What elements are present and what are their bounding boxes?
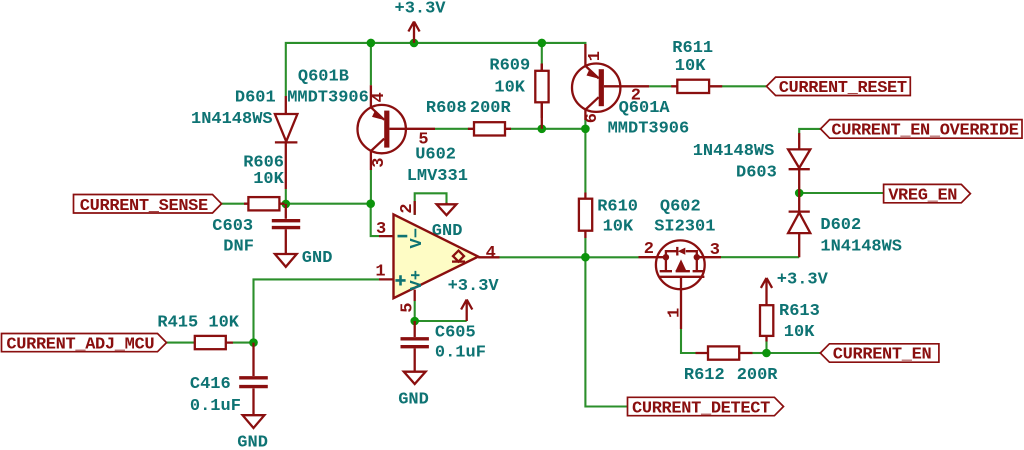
- hier label CURRENT_SENSE: [74, 195, 222, 217]
- svg-text:1: 1: [666, 308, 685, 318]
- wire node E down to CURRENT_DETECT corner: [585, 257, 627, 406]
- junction node E: [581, 253, 590, 262]
- ground C605: [404, 348, 426, 384]
- ground opamp pin2: [437, 203, 457, 216]
- hier label CURRENT_EN_OVERRIDE: [821, 120, 1023, 141]
- op-amp U602: [379, 201, 500, 301]
- op-amp U602 minus input marker: [398, 235, 408, 238]
- junction node B: [366, 199, 375, 208]
- svg-text:CURRENT_SENSE: CURRENT_SENSE: [80, 197, 208, 216]
- resistor R609: [535, 64, 548, 129]
- svg-text:2: 2: [644, 240, 654, 259]
- svg-text:3: 3: [370, 157, 389, 167]
- svg-text:CURRENT_RESET: CURRENT_RESET: [779, 79, 907, 98]
- wire node B down to opamp pin3: [371, 204, 379, 236]
- svg-text:GND: GND: [237, 434, 268, 450]
- capacitor C605: [401, 321, 429, 348]
- svg-text:R613: R613: [779, 302, 820, 321]
- svg-text:C603: C603: [212, 217, 253, 236]
- svg-text:+3.3V: +3.3V: [448, 277, 500, 296]
- wire node A to node B: [286, 203, 371, 205]
- svg-text:GND: GND: [398, 390, 429, 409]
- op-amp U602 open-drain marker: [452, 251, 465, 262]
- power +3.3V R613 arrow: [761, 278, 772, 305]
- svg-text:CURRENT_DETECT: CURRENT_DETECT: [632, 399, 770, 418]
- svg-text:CURRENT_EN: CURRENT_EN: [833, 345, 932, 364]
- svg-text:LMV331: LMV331: [407, 167, 468, 186]
- svg-text:R612: R612: [684, 366, 725, 385]
- wire CURRENT_SENSE to R606: [222, 203, 245, 205]
- capacitor C603: [272, 204, 300, 229]
- wire R608 to node C: [511, 128, 542, 130]
- svg-text:Q602: Q602: [660, 198, 701, 217]
- wire Q601A collector to node D: [584, 120, 586, 129]
- diode D602: [788, 193, 810, 257]
- resistor R611: [671, 80, 722, 93]
- wire Q601B emitter drop: [370, 43, 372, 85]
- svg-text:0.1uF: 0.1uF: [435, 344, 486, 363]
- wire CURRENT_ADJ_MCU to R415: [167, 342, 195, 344]
- svg-text:200R: 200R: [737, 366, 779, 385]
- ground C603: [275, 229, 297, 266]
- transistor Q601B: [358, 85, 436, 170]
- wire R613 bottom to node H: [765, 341, 767, 353]
- wire opamp pin2 to GND: [415, 193, 447, 215]
- svg-text:10K: 10K: [494, 78, 525, 97]
- wire opamp pin5 to node G: [414, 301, 416, 321]
- junction node D: [581, 125, 590, 134]
- svg-text:V+: V+: [408, 270, 427, 290]
- junction node A: [282, 200, 291, 209]
- svg-text:10K: 10K: [253, 170, 284, 189]
- wire R610 bottom to node E: [584, 238, 586, 257]
- svg-text:R415 10K: R415 10K: [157, 313, 239, 332]
- svg-text:+3.3V: +3.3V: [395, 0, 447, 18]
- svg-text:C605: C605: [435, 324, 476, 343]
- hier label VREG_EN: [884, 184, 971, 205]
- wire R609 top stub: [541, 43, 543, 64]
- svg-text:+3.3V: +3.3V: [777, 270, 829, 289]
- svg-text:V−: V−: [408, 228, 427, 248]
- wire D601 bottom to node A: [285, 189, 287, 204]
- resistor R608: [468, 122, 511, 135]
- hier label CURRENT_RESET: [767, 77, 911, 98]
- mosfet Q602: [639, 240, 722, 329]
- wire Q601A base gap: [649, 85, 671, 87]
- svg-text:R609: R609: [489, 56, 530, 75]
- hier label CURRENT_EN: [820, 344, 939, 365]
- wire VREG_EN node to label: [799, 192, 883, 194]
- diode D601: [275, 96, 298, 189]
- wire R611 to CURRENT_RESET: [722, 85, 767, 87]
- svg-text:10K: 10K: [784, 323, 815, 342]
- wire node G to +3.3V arrow: [415, 320, 467, 322]
- svg-text:C416: C416: [190, 375, 231, 394]
- svg-text:U602: U602: [415, 146, 456, 165]
- power +3.3V top arrow: [408, 22, 419, 43]
- junction node top1: [367, 39, 376, 48]
- wire R415 to node F: [233, 342, 254, 344]
- svg-text:R608: R608: [426, 99, 467, 118]
- svg-text:2: 2: [398, 203, 417, 213]
- svg-text:SI2301: SI2301: [654, 217, 715, 236]
- svg-text:VREG_EN: VREG_EN: [888, 187, 957, 206]
- svg-text:1: 1: [375, 263, 385, 282]
- wire R612 to node H: [753, 352, 767, 354]
- svg-text:MMDT3906: MMDT3906: [608, 119, 690, 138]
- resistor R610: [579, 193, 592, 239]
- wire Q601B base to R608: [435, 128, 469, 130]
- wire node H to CURRENT_EN: [767, 352, 821, 354]
- svg-text:0.1uF: 0.1uF: [190, 397, 241, 416]
- wire top rail +3.3V: [286, 43, 586, 96]
- junction node H: [762, 349, 771, 358]
- ground C416: [243, 388, 265, 428]
- op-amp U602 plus input marker: [395, 275, 405, 285]
- junction node F: [249, 338, 258, 347]
- wire node C to node D: [542, 128, 586, 130]
- resistor R612: [696, 346, 753, 359]
- svg-text:CURRENT_EN_OVERRIDE: CURRENT_EN_OVERRIDE: [831, 122, 1018, 141]
- resistor R613: [760, 305, 773, 341]
- svg-text:D601: D601: [235, 88, 276, 107]
- diode D603: [788, 133, 810, 193]
- wire node D down to R610: [584, 129, 586, 193]
- svg-text:200R: 200R: [470, 99, 512, 118]
- svg-text:3: 3: [376, 220, 386, 239]
- wire opamp pin1 row: [254, 279, 380, 342]
- svg-text:R611: R611: [672, 39, 713, 58]
- junction node C: [538, 125, 547, 134]
- svg-text:1N4148WS: 1N4148WS: [191, 110, 273, 129]
- junction node G: [410, 317, 419, 326]
- wire Q601B collector to node B: [370, 170, 372, 204]
- hier label CURRENT_ADJ_MCU: [2, 334, 167, 355]
- svg-text:Q601A: Q601A: [619, 99, 671, 118]
- svg-text:1N4148WS: 1N4148WS: [820, 237, 902, 256]
- junction node VREG: [795, 189, 804, 198]
- svg-text:1N4148WS: 1N4148WS: [693, 142, 775, 161]
- svg-text:10K: 10K: [603, 217, 634, 236]
- wire D603 top corner to CURRENT_EN_OVERRIDE: [799, 129, 820, 133]
- svg-text:5: 5: [398, 302, 417, 312]
- wire Q602 gate drop to R612: [681, 329, 696, 353]
- svg-text:3: 3: [710, 241, 720, 260]
- svg-text:6: 6: [583, 113, 602, 123]
- svg-text:10K: 10K: [675, 57, 706, 76]
- wire opamp output to node E to Q602: [500, 256, 639, 258]
- resistor R606: [244, 197, 285, 210]
- svg-text:GND: GND: [302, 249, 333, 268]
- junction node top3 R609: [538, 39, 547, 48]
- svg-text:4: 4: [486, 244, 496, 263]
- hier label CURRENT_DETECT: [628, 397, 784, 418]
- transistor Q601A: [572, 44, 649, 120]
- svg-text:MMDT3906: MMDT3906: [287, 89, 369, 108]
- svg-text:D603: D603: [736, 164, 777, 183]
- svg-text:D602: D602: [820, 216, 861, 235]
- svg-text:1: 1: [586, 51, 605, 61]
- junction node top2 +3.3V: [410, 39, 419, 48]
- svg-text:R610: R610: [597, 197, 638, 216]
- capacitor C416: [239, 343, 268, 389]
- wire Q602 drain to D602 column: [721, 256, 799, 258]
- svg-text:Q601B: Q601B: [298, 67, 349, 86]
- svg-text:4: 4: [370, 92, 389, 102]
- power +3.3V opamp arrow: [461, 300, 472, 322]
- resistor R415: [194, 336, 233, 349]
- svg-text:CURRENT_ADJ_MCU: CURRENT_ADJ_MCU: [6, 335, 154, 354]
- svg-text:DNF: DNF: [223, 238, 254, 257]
